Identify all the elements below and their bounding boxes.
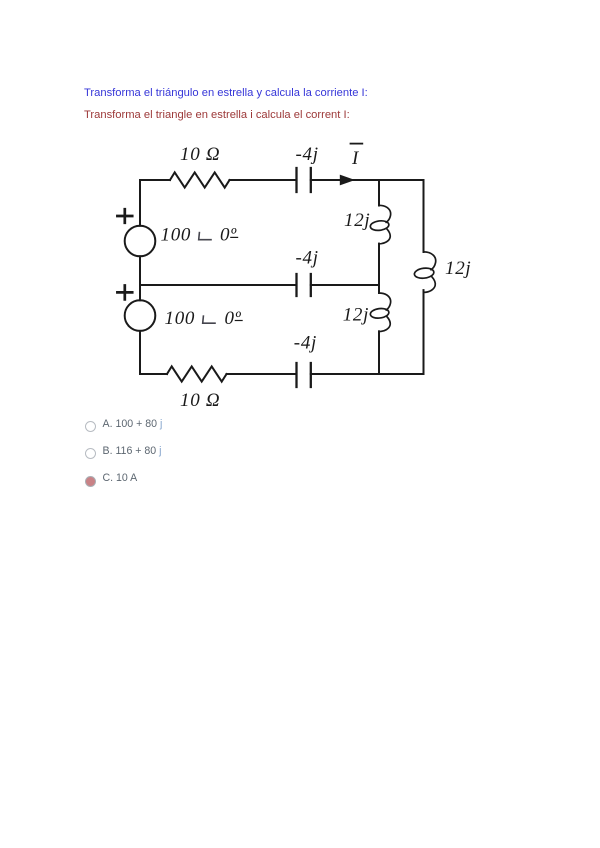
wire bottom rail middle segment: [227, 373, 297, 375]
wire bottom rail right segment: [311, 373, 424, 375]
wire middle rail right segment: [311, 284, 379, 286]
answer option A radio: [85, 421, 96, 432]
svg-text:12j: 12j: [445, 258, 471, 279]
svg-text:0º: 0º: [225, 308, 242, 329]
answer option B text: [103, 445, 162, 457]
resistor R2 10 ohm bottom: [167, 366, 227, 381]
svg-text:10 Ω: 10 Ω: [180, 390, 220, 411]
answer option B radio: [85, 448, 96, 459]
voltage source V2 circle: [125, 300, 156, 331]
label V2 angle symbol: [203, 316, 215, 323]
answer option C radio (selected): [85, 476, 96, 487]
wire left vertical middle segment: [139, 256, 141, 300]
svg-text:-4j: -4j: [294, 332, 317, 353]
polarity plus sign of source V1: [117, 209, 132, 223]
svg-text:12j: 12j: [344, 210, 370, 231]
svg-text:0º: 0º: [220, 225, 237, 246]
current arrow head: [340, 175, 355, 186]
label current I overbar: [351, 143, 363, 145]
wire top rail left segment: [140, 179, 170, 181]
polarity plus sign of source V2: [117, 286, 132, 300]
svg-text:12j: 12j: [343, 305, 369, 326]
label V1 ordinal underline: [231, 236, 238, 238]
wire inner right vertical middle segment: [378, 244, 380, 293]
svg-text:10 Ω: 10 Ω: [180, 144, 220, 165]
capacitor C3 -4j bottom: [297, 363, 311, 387]
wire top rail right segment: [311, 179, 424, 181]
inductor L3 12j outer right branch: [414, 252, 436, 293]
resistor R1 10 ohm top: [170, 172, 230, 187]
question title line 2: [84, 109, 350, 121]
wire top rail middle segment: [230, 179, 297, 181]
svg-text:-4j: -4j: [296, 248, 319, 269]
wire outer right vertical bottom segment: [423, 290, 425, 374]
label V1 angle symbol: [199, 233, 211, 240]
svg-text:I: I: [351, 148, 360, 169]
voltage source V1 circle: [125, 226, 156, 257]
capacitor C2 -4j middle: [297, 274, 311, 296]
wire left vertical bottom segment: [139, 331, 141, 374]
answer option C text: [103, 472, 138, 484]
wire left vertical top segment: [139, 180, 141, 226]
capacitor C1 -4j top: [297, 168, 311, 192]
label V2 ordinal underline: [235, 320, 242, 322]
inductor L1 12j upper inner branch: [370, 205, 391, 244]
answer option A text: [103, 418, 163, 430]
wire inner right vertical top segment: [378, 180, 380, 206]
inductor L2 12j lower inner branch: [370, 293, 391, 332]
wire middle rail left segment: [140, 284, 297, 286]
svg-text:100: 100: [165, 308, 196, 329]
wire bottom rail left segment: [140, 373, 167, 375]
wire inner right vertical bottom segment: [378, 331, 380, 374]
wire outer right vertical top segment: [423, 180, 425, 252]
question title line 1: [84, 87, 368, 99]
svg-text:100: 100: [161, 225, 192, 246]
svg-text:-4j: -4j: [296, 144, 319, 165]
